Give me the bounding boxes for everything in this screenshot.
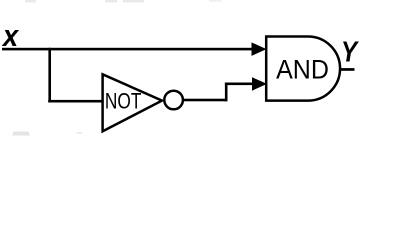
faint crop artifacts top [25,0,222,2]
arrowhead into AND input 1 [252,42,267,56]
wire horizontal to AND input 2 [225,83,253,86]
wire lower horizontal to NOT gate [48,100,103,103]
wire main horizontal from x to AND input 1 [2,48,252,51]
wire output stub [340,68,355,71]
NOT gate U1 triangle [103,74,162,131]
svg-text:NOT: NOT [105,89,142,114]
arrowhead into AND input 2 [252,77,267,91]
wire branch vertical [48,48,51,103]
svg-text:AND: AND [276,56,329,85]
bubble (inversion circle) [164,91,183,110]
wire vertical up [225,83,228,102]
wire from bubble [184,99,227,102]
faint crop artifacts bottom [12,132,83,136]
AND gate U2 body [266,37,340,101]
svg-text:Y: Y [341,35,359,68]
